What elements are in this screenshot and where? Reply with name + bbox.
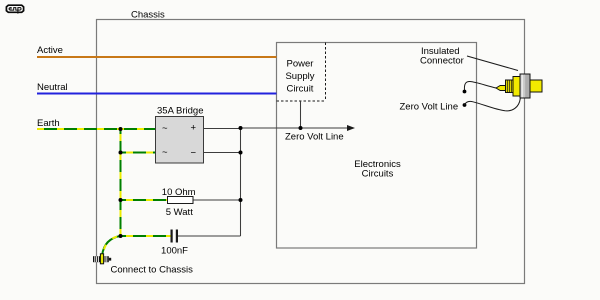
svg-text:Circuits: Circuits bbox=[362, 169, 394, 180]
svg-text:Connector: Connector bbox=[420, 56, 464, 67]
svg-text:5 Watt: 5 Watt bbox=[166, 207, 193, 218]
svg-text:−: − bbox=[191, 148, 197, 159]
svg-text:~: ~ bbox=[162, 123, 168, 134]
svg-text:Circuit: Circuit bbox=[287, 84, 314, 95]
svg-text:Chassis: Chassis bbox=[131, 10, 165, 21]
svg-text:Neutral: Neutral bbox=[37, 82, 68, 93]
svg-text:35A Bridge: 35A Bridge bbox=[157, 106, 203, 117]
svg-text:Active: Active bbox=[37, 45, 63, 56]
svg-text:+: + bbox=[191, 123, 197, 134]
svg-text:Power: Power bbox=[287, 59, 314, 70]
svg-text:Connect to Chassis: Connect to Chassis bbox=[111, 265, 194, 276]
svg-text:Supply: Supply bbox=[285, 71, 314, 82]
svg-text:Zero Volt Line: Zero Volt Line bbox=[400, 102, 459, 113]
svg-text:Earth: Earth bbox=[37, 118, 60, 129]
svg-text:Zero Volt Line: Zero Volt Line bbox=[285, 132, 344, 143]
svg-text:100nF: 100nF bbox=[161, 246, 188, 257]
svg-text:~: ~ bbox=[162, 147, 168, 158]
